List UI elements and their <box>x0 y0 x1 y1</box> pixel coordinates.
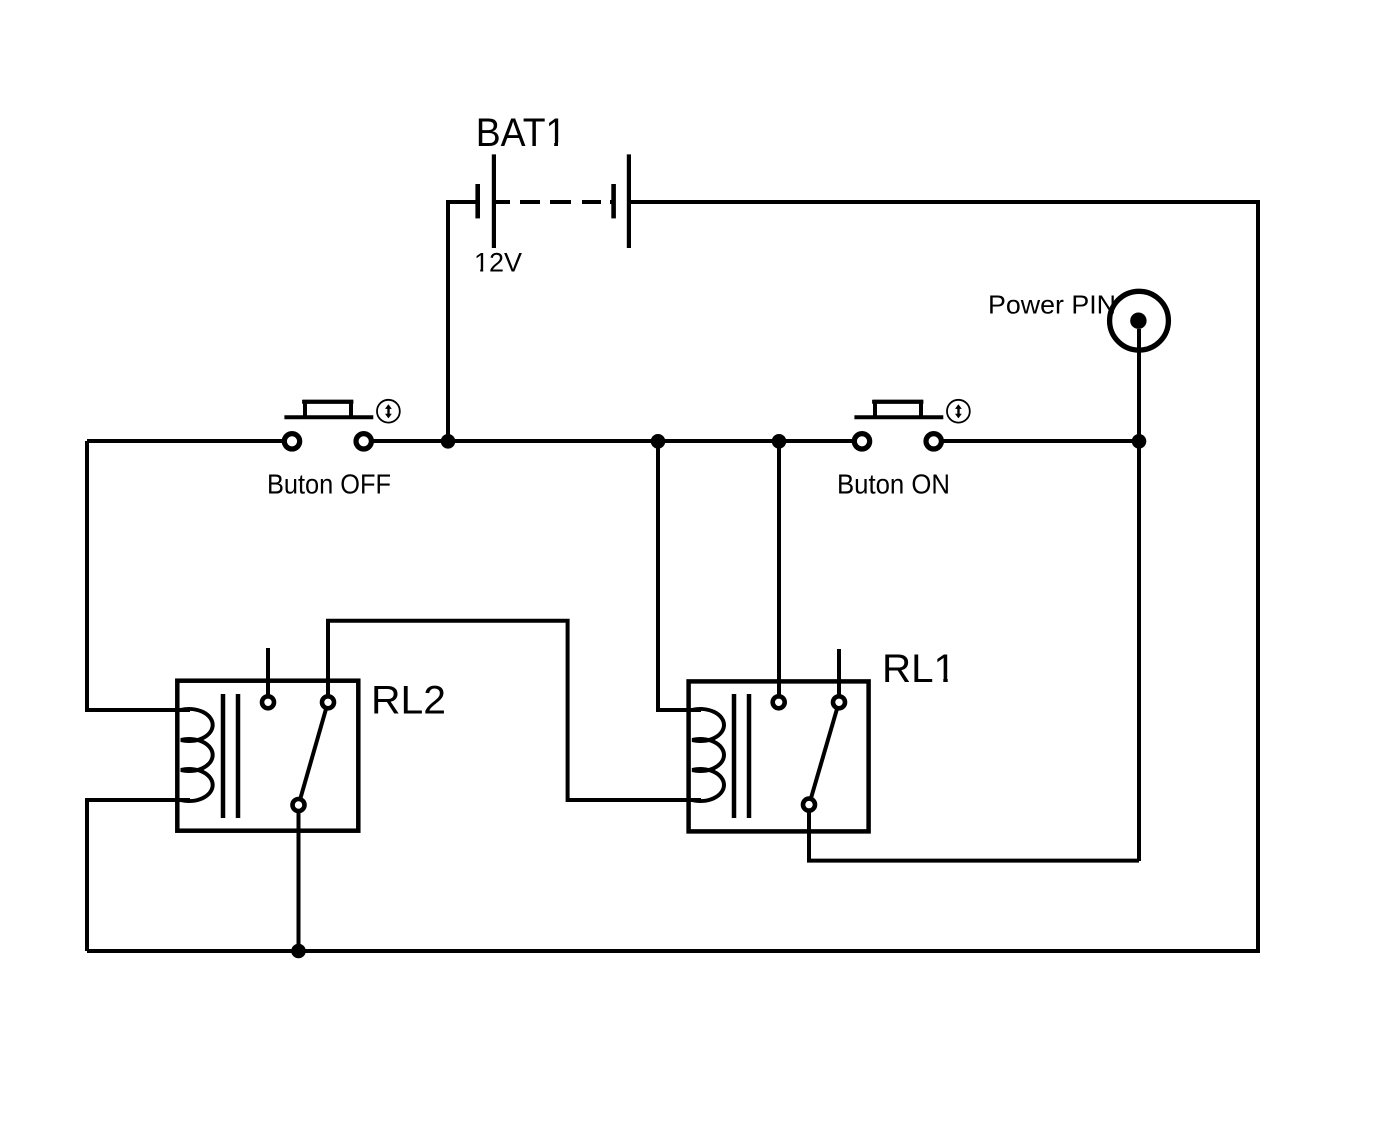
RL2 common wire <box>297 805 301 951</box>
button terminal right <box>356 434 371 449</box>
svg-text:12V: 12V <box>474 247 522 277</box>
RL2 core lines <box>221 694 226 818</box>
wire left vertical lower (RL2 coil bottom to bottom rail) <box>87 800 190 951</box>
RL2 coil pin circle <box>262 696 274 708</box>
wire battery left lead <box>448 202 478 441</box>
RL1 switch pin stub <box>837 649 841 698</box>
wire left vertical upper (node to RL2 coil top) <box>87 441 190 710</box>
RL1 switch arm <box>809 702 839 805</box>
junction node at RL1 coil pin feed <box>772 434 787 449</box>
RL1 switch top pin circle <box>833 696 845 708</box>
RL1 common pin circle <box>803 799 815 811</box>
wire right border vertical <box>1256 200 1260 951</box>
svg-text:RL2: RL2 <box>371 679 446 723</box>
svg-text:Buton ON: Buton ON <box>837 468 950 499</box>
junction node at battery drop <box>441 434 456 449</box>
wire battery right lead to right border <box>629 200 1258 204</box>
RL2 switch top pin circle <box>322 696 334 708</box>
wire RL1 coil top feed <box>658 441 701 710</box>
RL2 body box <box>177 681 358 831</box>
battery plate negative left (short) <box>475 184 480 218</box>
button actuator bar <box>854 415 943 419</box>
wire dashed battery middle link <box>496 200 614 204</box>
relay RL1 <box>689 649 1139 861</box>
power pin center dot <box>1130 313 1146 329</box>
button cap <box>875 402 921 417</box>
junction node at RL1 coil top feed <box>651 434 666 449</box>
battery plate positive right (tall) <box>627 154 631 248</box>
wire main rail middle segment (Buton OFF right terminal to Buton ON left terminal) <box>364 439 862 443</box>
connector Power PIN <box>1110 291 1169 861</box>
wire power pin drop (to RL1 common rail) <box>1137 329 1141 861</box>
button actuator bar <box>284 415 373 419</box>
RL1 body box <box>689 681 869 831</box>
RL1 common wire <box>809 805 1139 861</box>
RL1 coil pin circle <box>773 696 785 708</box>
RL2 switch arm <box>299 702 329 805</box>
RL1 coil <box>692 709 724 801</box>
power pin outer circle <box>1110 291 1169 350</box>
wire main rail right segment (Buton ON right terminal to power node) <box>934 439 1139 443</box>
battery BAT1 <box>448 154 629 441</box>
RL1 core lines <box>732 694 737 818</box>
button motion symbol circle <box>947 400 970 423</box>
pushbutton Buton OFF <box>284 400 400 449</box>
wire RL1 coil pin feed <box>777 441 781 700</box>
RL2 coil pin stub <box>266 648 270 698</box>
battery plate negative right (short) <box>611 184 616 218</box>
svg-text:Power PIN: Power PIN <box>988 290 1116 320</box>
battery plate positive left (tall) <box>492 154 496 248</box>
svg-text:RL1: RL1 <box>882 647 956 691</box>
button terminal right <box>926 434 941 449</box>
button motion arrow <box>955 404 962 418</box>
wire bottom rail <box>87 949 1260 953</box>
svg-text:BAT1: BAT1 <box>476 111 567 155</box>
button terminal left <box>854 434 869 449</box>
wire main rail left segment (to Buton OFF left terminal) <box>87 439 292 443</box>
junction node at bottom rail / RL2 common <box>291 944 306 959</box>
RL2 switch feed wire (to RL1 coil loop) <box>328 621 701 800</box>
button motion arrow <box>385 404 392 418</box>
button cap <box>305 402 351 417</box>
RL2 common pin circle <box>293 799 305 811</box>
junction node at power pin column <box>1132 434 1147 449</box>
RL2 coil <box>181 709 213 801</box>
pushbutton Buton ON <box>854 400 970 449</box>
relay RL2 <box>177 621 701 951</box>
svg-text:Buton OFF: Buton OFF <box>267 468 391 499</box>
button terminal left <box>284 434 299 449</box>
button motion symbol circle <box>377 400 400 423</box>
